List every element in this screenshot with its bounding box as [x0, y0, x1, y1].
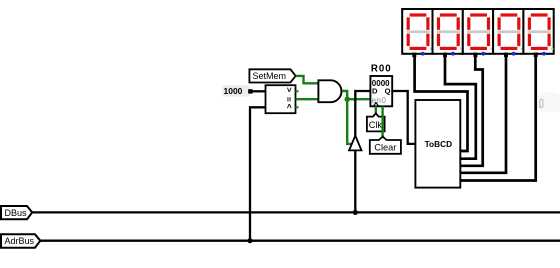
svg-text:R00: R00 — [371, 63, 392, 74]
wire Clear to register clr — [381, 106, 383, 137]
svg-text:SetMem: SetMem — [253, 71, 287, 81]
tunnel SetMem — [249, 69, 295, 82]
driver T1 (tri-state buffer, pointing up) — [349, 136, 361, 151]
svg-text:Q: Q — [385, 86, 391, 95]
junction node (AND output net) — [345, 97, 350, 102]
comparator output pin gt (unconnected stub) — [296, 90, 299, 92]
constant 1000 — [222, 85, 252, 96]
AND gate — [318, 80, 341, 102]
svg-text:1000: 1000 — [224, 86, 243, 96]
seven segment display D5 — [523, 9, 553, 56]
wire DBus up through driver to register D — [354, 150, 356, 212]
wire DBus horizontal — [32, 211, 560, 213]
seven segment display D4 — [493, 9, 523, 56]
wire AdrBus horizontal — [40, 240, 560, 242]
wire register Q to ToBCD input — [392, 91, 415, 144]
seven segment display D1 — [402, 9, 432, 56]
svg-text:en0: en0 — [372, 96, 387, 105]
svg-text:ToBCD: ToBCD — [425, 139, 453, 149]
svg-text:>: > — [284, 87, 294, 92]
ToBCD converter — [415, 100, 460, 188]
wire comparator eq output to AND input b — [296, 98, 319, 100]
wire comparator input b to AdrBus — [250, 107, 266, 240]
svg-text:DBus: DBus — [5, 208, 28, 218]
bus label DBus — [1, 206, 32, 219]
display input pin pads — [412, 53, 416, 57]
comparator output pin lt (unconnected stub) — [296, 106, 299, 108]
junction on AdrBus — [247, 238, 252, 243]
bus label AdrBus — [1, 234, 40, 247]
wire junction down to driver select — [347, 99, 352, 144]
svg-text:<: < — [284, 104, 294, 109]
wire ToBCD out2 to display 2 — [445, 54, 476, 159]
tooltip artifact — [538, 93, 560, 113]
wire SetMem to AND input a — [296, 76, 319, 83]
svg-text:Clk: Clk — [369, 120, 383, 130]
wire junction to register en — [347, 98, 370, 100]
wire AND output to junction — [340, 90, 342, 92]
wire ToBCD out3 to display 3 — [460, 54, 482, 166]
wire Clk to register C — [375, 106, 377, 113]
wire ToBCD out5 to display 5 — [460, 54, 535, 181]
svg-text:Clear: Clear — [374, 143, 396, 153]
clock Clk — [367, 113, 385, 131]
seven segment display D2 — [433, 9, 463, 56]
comparator U1 — [266, 85, 296, 113]
wire ToBCD out4 to display 4 — [460, 54, 506, 173]
wire ToBCD out1 to display 1 — [415, 54, 468, 151]
svg-text:D: D — [372, 86, 378, 95]
svg-text:AdrBus: AdrBus — [5, 236, 35, 246]
register R00 — [370, 63, 392, 106]
seven segment display D3 — [463, 9, 493, 56]
svg-text:=: = — [284, 97, 294, 102]
button Clear — [370, 137, 401, 154]
wire constant to comparator input a — [250, 90, 265, 92]
junction on DBus — [353, 210, 358, 215]
